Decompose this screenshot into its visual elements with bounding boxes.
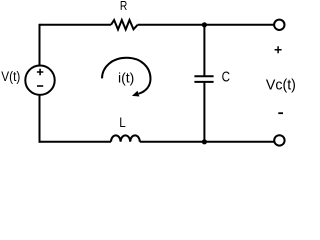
- terminal bottom-right: [274, 135, 284, 145]
- svg-text:i(t): i(t): [118, 70, 134, 86]
- wire bottom-right horizontal: [140, 141, 274, 143]
- voltage source V1: [25, 66, 54, 95]
- svg-text:R: R: [120, 0, 127, 13]
- svg-text:L: L: [119, 115, 125, 131]
- inductor L: [111, 135, 140, 141]
- junction node bottom: [202, 139, 207, 144]
- label - output: [278, 112, 283, 114]
- wire left vertical top: [39, 24, 41, 66]
- wire left vertical bottom: [39, 95, 41, 143]
- junction node top: [202, 22, 207, 27]
- svg-text:V(t): V(t): [1, 69, 20, 84]
- wire bottom-left horizontal: [40, 141, 112, 143]
- plus sign inside source: [37, 69, 43, 75]
- resistor R: [111, 20, 138, 30]
- capacitor C plate top: [194, 75, 213, 77]
- terminal top-right: [274, 20, 284, 30]
- svg-text:C: C: [222, 69, 230, 85]
- capacitor branch wire lower: [203, 82, 205, 142]
- current loop arrow i(t): [102, 58, 151, 94]
- wire top-right horizontal: [138, 24, 275, 26]
- minus sign inside source: [37, 85, 43, 87]
- capacitor C plate bottom: [194, 81, 213, 83]
- capacitor branch wire upper: [203, 25, 205, 76]
- label + output: [275, 46, 282, 53]
- wire top-left horizontal: [40, 24, 112, 26]
- arrowhead of i(t): [132, 91, 140, 97]
- svg-text:Vc(t): Vc(t): [266, 77, 296, 93]
